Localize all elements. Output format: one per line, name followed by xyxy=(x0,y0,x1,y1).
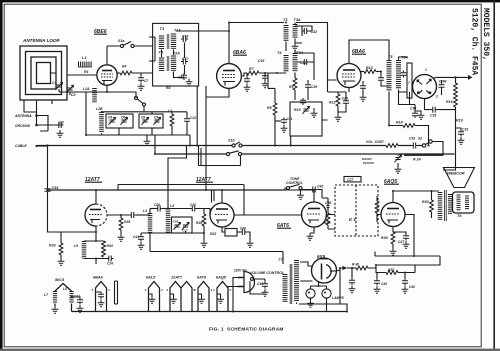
wire R12 cluster xyxy=(328,80,347,114)
capacitor C33 xyxy=(430,107,456,118)
svg-text:R25: R25 xyxy=(124,220,130,224)
relay K1 dashed box xyxy=(335,185,378,236)
tube V2 6BA6 xyxy=(217,30,242,88)
resistor R8 vertical xyxy=(267,103,277,115)
tube V1 6BE6 xyxy=(97,46,117,85)
resistor R7 xyxy=(247,67,259,75)
ground 6AQ5 heater xyxy=(217,294,224,303)
T4 primary winding xyxy=(284,55,289,72)
wire V5 cathode down xyxy=(95,226,97,241)
trimmer C9 xyxy=(153,116,160,125)
ground below C3 xyxy=(57,130,64,137)
capacitor C11 xyxy=(275,117,293,132)
capacitor C40 xyxy=(237,227,253,248)
tube V2 6BA6 label xyxy=(233,50,247,56)
svg-text:ANTENNA: ANTENNA xyxy=(14,114,32,118)
svg-text:4: 4 xyxy=(160,288,163,292)
trimmer C1 xyxy=(52,81,63,90)
tube V1 6BE6 label xyxy=(94,29,107,35)
L9 winding xyxy=(74,241,84,259)
wire T7 to 6X5 plates xyxy=(300,262,313,281)
wire T4 bottoms down xyxy=(265,73,308,101)
svg-text:C17: C17 xyxy=(182,229,188,233)
heater bus xyxy=(72,311,348,313)
svg-text:VOL. CONT.: VOL. CONT. xyxy=(366,140,385,144)
resistor R12 vertical xyxy=(329,94,340,106)
wire right bus down xyxy=(443,146,456,171)
border frame: outer top black bar xyxy=(0,0,500,2)
B+ bus y=190 xyxy=(48,189,286,191)
svg-text:C9: C9 xyxy=(154,116,158,120)
T7 secondary winding xyxy=(294,260,299,302)
L1 coil xyxy=(78,64,92,67)
capacitor C18 xyxy=(178,73,187,80)
wire V6 plate to V7 grid xyxy=(234,214,302,216)
pilot lamp 2 xyxy=(322,286,331,312)
T7 core xyxy=(290,264,292,304)
capacitor C36 xyxy=(150,203,168,212)
wire R32 row xyxy=(376,265,415,273)
wire lamps feed xyxy=(311,282,327,286)
potentiometer R20 xyxy=(386,144,398,148)
L2B winding xyxy=(99,112,104,133)
ground tone switch xyxy=(297,190,304,200)
wire V8 screen down xyxy=(405,215,414,257)
svg-text:C41: C41 xyxy=(133,235,139,239)
svg-text:C48: C48 xyxy=(409,285,415,289)
vertical feed x197 xyxy=(196,86,198,146)
svg-text:R33: R33 xyxy=(49,244,56,248)
resistor R13 xyxy=(361,66,382,73)
T5A secondary winding xyxy=(396,60,401,89)
cable terminal dot xyxy=(35,145,37,147)
decoupling bus y=251.5 xyxy=(150,234,283,265)
trimmer C17b xyxy=(182,222,189,232)
heater arch 12AT7 xyxy=(166,276,196,312)
resistor R19 xyxy=(456,119,463,123)
volume control terminal xyxy=(250,278,265,294)
svg-text:WEBCOR: WEBCOR xyxy=(447,171,465,176)
svg-text:C27: C27 xyxy=(347,178,354,182)
wire V6 plate to bus xyxy=(221,190,223,203)
svg-text:C4: C4 xyxy=(108,116,112,120)
junction dot output xyxy=(454,76,456,78)
wire inside box left caps xyxy=(149,37,185,78)
svg-text:L8: L8 xyxy=(63,287,67,291)
svg-text:PHONO: PHONO xyxy=(363,161,375,165)
svg-text:R4: R4 xyxy=(122,65,126,69)
svg-text:C26: C26 xyxy=(154,203,160,207)
wire R16 to bus xyxy=(455,124,457,146)
resistor R21 xyxy=(347,263,415,270)
bus wire AVC continues xyxy=(242,145,422,147)
ground V7 cathode xyxy=(307,227,314,240)
resistor R5 vertical xyxy=(289,78,297,90)
resistor R16 xyxy=(446,77,457,124)
svg-text:R28: R28 xyxy=(196,221,202,225)
bus wire lower y=154 xyxy=(155,153,454,155)
svg-text:R34: R34 xyxy=(107,244,113,248)
svg-text:R16: R16 xyxy=(446,100,454,104)
capacitor C10 xyxy=(168,203,210,215)
tube V9 6X5 xyxy=(312,258,337,283)
T2 primary winding xyxy=(159,58,164,72)
capacitor C42 xyxy=(302,185,323,199)
wire 6X5 output arrow xyxy=(337,268,343,271)
capacitor C17 xyxy=(181,57,189,65)
svg-text:C·9R: C·9R xyxy=(439,80,447,84)
wire upper audio bus xyxy=(118,185,244,216)
resistor R33 xyxy=(49,232,64,265)
trimmer C16b xyxy=(173,220,181,230)
tube V3 6BA6 label xyxy=(352,49,366,55)
svg-text:LAMPS: LAMPS xyxy=(332,296,345,300)
switch S2 xyxy=(418,137,432,148)
capacitor C22 xyxy=(302,28,317,34)
svg-text:C16: C16 xyxy=(182,34,188,38)
wire loop bottom taps xyxy=(24,100,52,125)
svg-text:L4: L4 xyxy=(170,204,174,208)
T3 secondary winding xyxy=(293,24,298,38)
svg-text:C40: C40 xyxy=(240,227,246,231)
capacitor C19 xyxy=(258,59,268,81)
capacitor C35 xyxy=(107,256,114,266)
T3 primary winding xyxy=(284,25,289,41)
resistor R36 xyxy=(381,227,396,256)
wire T1A to V2 grid xyxy=(176,30,229,32)
wire V4 cathode to C33 xyxy=(425,99,431,110)
resistor R6 vertical xyxy=(170,114,174,126)
svg-text:C8: C8 xyxy=(141,116,145,120)
svg-text:C31: C31 xyxy=(462,128,468,132)
svg-text:6AL5: 6AL5 xyxy=(146,276,156,280)
svg-text:C2: C2 xyxy=(71,93,75,97)
svg-text:C10: C10 xyxy=(190,203,196,207)
svg-text:6AT6: 6AT6 xyxy=(197,276,207,280)
svg-text:T1: T1 xyxy=(160,26,165,31)
svg-text:S1b: S1b xyxy=(228,139,235,143)
wire trimmer bus top xyxy=(102,112,188,117)
resistor R18 xyxy=(389,92,429,146)
C23 capacitor xyxy=(300,59,309,65)
capacitor heater V2 xyxy=(96,292,105,307)
resistor R28 xyxy=(196,209,206,234)
cathode network box V6 xyxy=(210,227,237,236)
svg-text:S1a: S1a xyxy=(118,39,124,43)
T5 shield rect xyxy=(407,63,412,98)
wire T3 primary bottom to T4 xyxy=(285,42,287,52)
ground C21 xyxy=(311,108,318,117)
T1 secondary winding xyxy=(171,34,176,50)
T2 secondary winding xyxy=(171,56,176,72)
wire T5A to V4 xyxy=(399,87,413,93)
wire T5A top xyxy=(399,57,408,60)
svg-text:C14: C14 xyxy=(107,262,113,266)
wire V8 plate to T6 xyxy=(393,191,439,202)
heater arch 6AT6 xyxy=(194,276,213,312)
resistor R4 xyxy=(117,65,152,75)
svg-text:GROUND: GROUND xyxy=(15,124,31,128)
C27 box xyxy=(344,177,361,182)
svg-text:R·W: R·W xyxy=(352,263,360,267)
B+ arrow xyxy=(343,266,348,271)
resistor R25 xyxy=(118,214,131,241)
ground 6AT6 heater xyxy=(198,294,205,303)
wire T5A bottom to C34 xyxy=(399,92,416,105)
trimmer box 2 xyxy=(139,114,163,128)
capacitor C26a xyxy=(305,83,317,90)
tube V8 6AQ5 xyxy=(381,203,405,227)
T2 core xyxy=(167,56,169,71)
tube V7 6AT6 label xyxy=(277,223,291,229)
svg-text:C3: C3 xyxy=(59,120,64,124)
capacitor C34b xyxy=(410,105,418,119)
border frame: right edge black line xyxy=(493,0,495,351)
capacitor C28b xyxy=(374,273,387,294)
capacitor C54 xyxy=(45,186,60,194)
capacitor C30 xyxy=(378,72,389,87)
resistor R29 xyxy=(375,196,381,222)
trimmer C6 xyxy=(120,116,127,125)
title MODELS 350, 5120, Ch. F45A (rotated right margin) xyxy=(470,8,491,75)
wire rectifier bottom xyxy=(299,268,347,312)
T4 secondary winding xyxy=(293,53,298,72)
resistor R35 xyxy=(324,211,330,229)
svg-text:C33: C33 xyxy=(409,137,415,141)
heater feed wires xyxy=(168,146,241,209)
svg-text:C47: C47 xyxy=(398,240,405,244)
antenna terminal dot xyxy=(35,114,38,117)
svg-text:C33: C33 xyxy=(430,114,436,118)
tube V6 12AT7 xyxy=(210,203,234,227)
AC plug 115V xyxy=(228,269,255,312)
wire cable to bus xyxy=(37,145,48,147)
tube V7 6AT6 xyxy=(302,202,327,227)
RADIO PHONO label xyxy=(362,157,375,165)
svg-text:50C5: 50C5 xyxy=(55,278,65,282)
svg-text:R19: R19 xyxy=(456,119,463,123)
switch S1a xyxy=(107,39,153,48)
wire V5 plate to bus xyxy=(95,190,97,204)
trimmer C21 xyxy=(302,106,309,114)
wire ground link xyxy=(37,124,58,126)
ground terminal dot xyxy=(35,124,38,127)
wire audio cathode row xyxy=(84,241,107,264)
svg-text:2: 2 xyxy=(435,95,438,99)
capacitor C7 xyxy=(138,73,149,90)
svg-text:C7: C7 xyxy=(144,79,148,83)
svg-text:R36: R36 xyxy=(381,236,389,240)
trimmer C4 xyxy=(108,116,116,125)
T5 primary winding xyxy=(387,60,392,91)
wire top right to detector xyxy=(296,23,328,81)
svg-text:12AT7: 12AT7 xyxy=(171,276,183,280)
svg-text:4: 4 xyxy=(212,288,215,292)
capacitor C16 xyxy=(181,34,188,42)
capacitor C47 xyxy=(393,232,409,248)
L5 winding xyxy=(143,209,150,234)
capacitor C46 xyxy=(257,279,268,296)
pilot lamp 1 xyxy=(306,286,315,307)
wire trimmer bus bottom xyxy=(86,124,190,146)
T1 core xyxy=(167,34,169,49)
svg-text:C1: C1 xyxy=(52,81,56,85)
capacitor C20 tube xyxy=(244,73,251,91)
ground oscillator xyxy=(144,135,151,145)
trimmer box audio xyxy=(172,217,193,233)
ground 6AL5 heater xyxy=(149,294,156,303)
svg-text:C42: C42 xyxy=(317,185,323,189)
capacitor C48 xyxy=(402,273,415,294)
capacitor C33b xyxy=(409,137,418,149)
wire into K1 xyxy=(327,215,336,230)
capacitor C3 xyxy=(57,120,64,128)
svg-text:C26: C26 xyxy=(311,85,317,89)
svg-text:T3A: T3A xyxy=(294,18,301,22)
wire loop to L1 xyxy=(51,73,97,75)
vertical feed x206 xyxy=(205,86,207,190)
tube V6 12AT7 label xyxy=(196,177,213,183)
svg-text:ANTENNA LOOP: ANTENNA LOOP xyxy=(22,38,61,43)
svg-text:5120, Ch. F45A: 5120, Ch. F45A xyxy=(470,8,479,75)
heater arch V2 6BA6 xyxy=(92,276,111,312)
svg-text:R18: R18 xyxy=(396,121,403,125)
heater arch 6AL5 xyxy=(145,276,164,312)
svg-text:C17: C17 xyxy=(182,57,189,61)
svg-text:1: 1 xyxy=(425,68,427,72)
svg-text:VOLUME CONTROL: VOLUME CONTROL xyxy=(250,271,284,275)
tube V5 12AT7 label xyxy=(85,177,102,183)
resistor R34 xyxy=(102,241,113,257)
T6 primary winding xyxy=(438,192,443,220)
coupling capacitor C37 xyxy=(107,212,147,218)
wire V2 cathode down xyxy=(206,88,229,97)
svg-text:L9: L9 xyxy=(74,244,78,248)
ground 12AT7 heater xyxy=(170,294,177,303)
L2A winding xyxy=(92,88,97,103)
ground R12 xyxy=(335,114,342,121)
svg-text:C14: C14 xyxy=(190,116,196,120)
resistor R30 xyxy=(422,191,433,218)
svg-text:4: 4 xyxy=(166,288,169,292)
resistor R32 xyxy=(386,268,400,274)
svg-text:MODELS 350,: MODELS 350, xyxy=(481,8,490,61)
ground C18 xyxy=(186,79,193,86)
capacitor C44 xyxy=(72,295,84,313)
svg-text:C25: C25 xyxy=(342,97,348,101)
bus wire AVC y=145.5 xyxy=(38,145,232,147)
svg-text:6AQ5: 6AQ5 xyxy=(216,276,227,280)
capacitor C26b on V4 xyxy=(439,80,448,96)
svg-text:R8: R8 xyxy=(267,106,272,110)
tube V3 6BA6 xyxy=(337,64,361,88)
oscillator box outline xyxy=(153,23,199,86)
wire box bottom to bus xyxy=(291,120,328,146)
ground T3 xyxy=(292,43,299,50)
wire T3 secondary to C22 xyxy=(295,23,312,44)
capacitor C28 xyxy=(342,97,349,106)
ground C19 xyxy=(262,81,269,88)
trimmer box 1 xyxy=(106,114,133,128)
svg-text:K 1: K 1 xyxy=(349,217,356,222)
output arrow xyxy=(468,75,473,80)
trimmer C8 xyxy=(141,116,149,125)
wire T7 to 6X5 xyxy=(296,303,298,305)
L6 winding xyxy=(168,204,174,233)
wire T4A to C23 xyxy=(295,51,314,80)
tube V5 12AT7 (half) xyxy=(85,204,107,226)
capacitor C31 xyxy=(456,128,469,145)
L8 winding xyxy=(63,287,72,303)
capacitor T5 internal xyxy=(401,71,407,78)
svg-text:R 24: R 24 xyxy=(413,158,421,162)
svg-text:FIG. 1 SCHEMATIC DIAGRAM: FIG. 1 SCHEMATIC DIAGRAM xyxy=(209,327,284,333)
capacitor C20b top xyxy=(300,98,306,105)
switch S1d xyxy=(226,151,241,156)
L7-L8 arch xyxy=(55,284,72,312)
capacitor C14 xyxy=(184,116,196,124)
ground R28 xyxy=(201,233,208,247)
speaker body xyxy=(453,192,475,213)
ground phono switch xyxy=(395,163,402,173)
border frame: outer left black bar xyxy=(0,0,3,351)
wire C3 to ground xyxy=(40,118,64,131)
AVC filter box xyxy=(290,102,322,136)
svg-text:R2: R2 xyxy=(166,86,171,90)
svg-text:CONTROL: CONTROL xyxy=(286,181,303,185)
svg-text:R1: R1 xyxy=(84,70,89,74)
heater arch 6AQ5 xyxy=(212,276,232,312)
svg-text:R30: R30 xyxy=(422,200,429,204)
svg-text:S2: S2 xyxy=(418,137,422,141)
capacitor C43 xyxy=(349,268,356,293)
capacitor C41 xyxy=(133,233,144,249)
svg-text:7: 7 xyxy=(408,81,410,85)
speaker horn WEBCOR xyxy=(444,168,475,188)
bus right y=256 xyxy=(375,252,440,266)
wire V4 plate to output arrow xyxy=(434,76,469,79)
svg-text:C16: C16 xyxy=(173,220,179,224)
T1 primary winding xyxy=(159,36,164,50)
svg-text:4: 4 xyxy=(107,288,110,292)
tone control switch R31 xyxy=(285,177,303,190)
svg-text:C19: C19 xyxy=(258,59,264,63)
wire V3 cathode xyxy=(348,88,350,92)
L7 winding xyxy=(44,291,55,303)
switch S1b xyxy=(228,139,242,148)
svg-text:L2B: L2B xyxy=(96,107,103,111)
svg-text:L2A: L2A xyxy=(83,87,90,91)
trimmer C2 xyxy=(66,85,75,97)
wire R8 column xyxy=(268,73,275,146)
T7 primary winding xyxy=(283,274,288,302)
border frame: bottom gray bar xyxy=(0,349,500,351)
svg-text:R22: R22 xyxy=(210,232,216,236)
wire V3 plate loop to T5 xyxy=(349,40,389,63)
wire S2 return loop xyxy=(404,142,443,156)
T6 secondary winding xyxy=(448,194,452,214)
switch S1c arm xyxy=(107,92,146,112)
svg-text:T2A: T2A xyxy=(173,52,180,56)
tube V9 6X5 label xyxy=(317,254,328,259)
filter choke wires xyxy=(115,281,118,304)
capacitor C29 xyxy=(360,81,367,101)
svg-text:6BA6: 6BA6 xyxy=(93,276,104,280)
wire audio grid row bottom xyxy=(141,231,204,233)
trimmer C38 phono xyxy=(394,155,443,163)
wire bus drop x155 xyxy=(154,135,156,154)
wire antenna terminal xyxy=(37,116,49,126)
